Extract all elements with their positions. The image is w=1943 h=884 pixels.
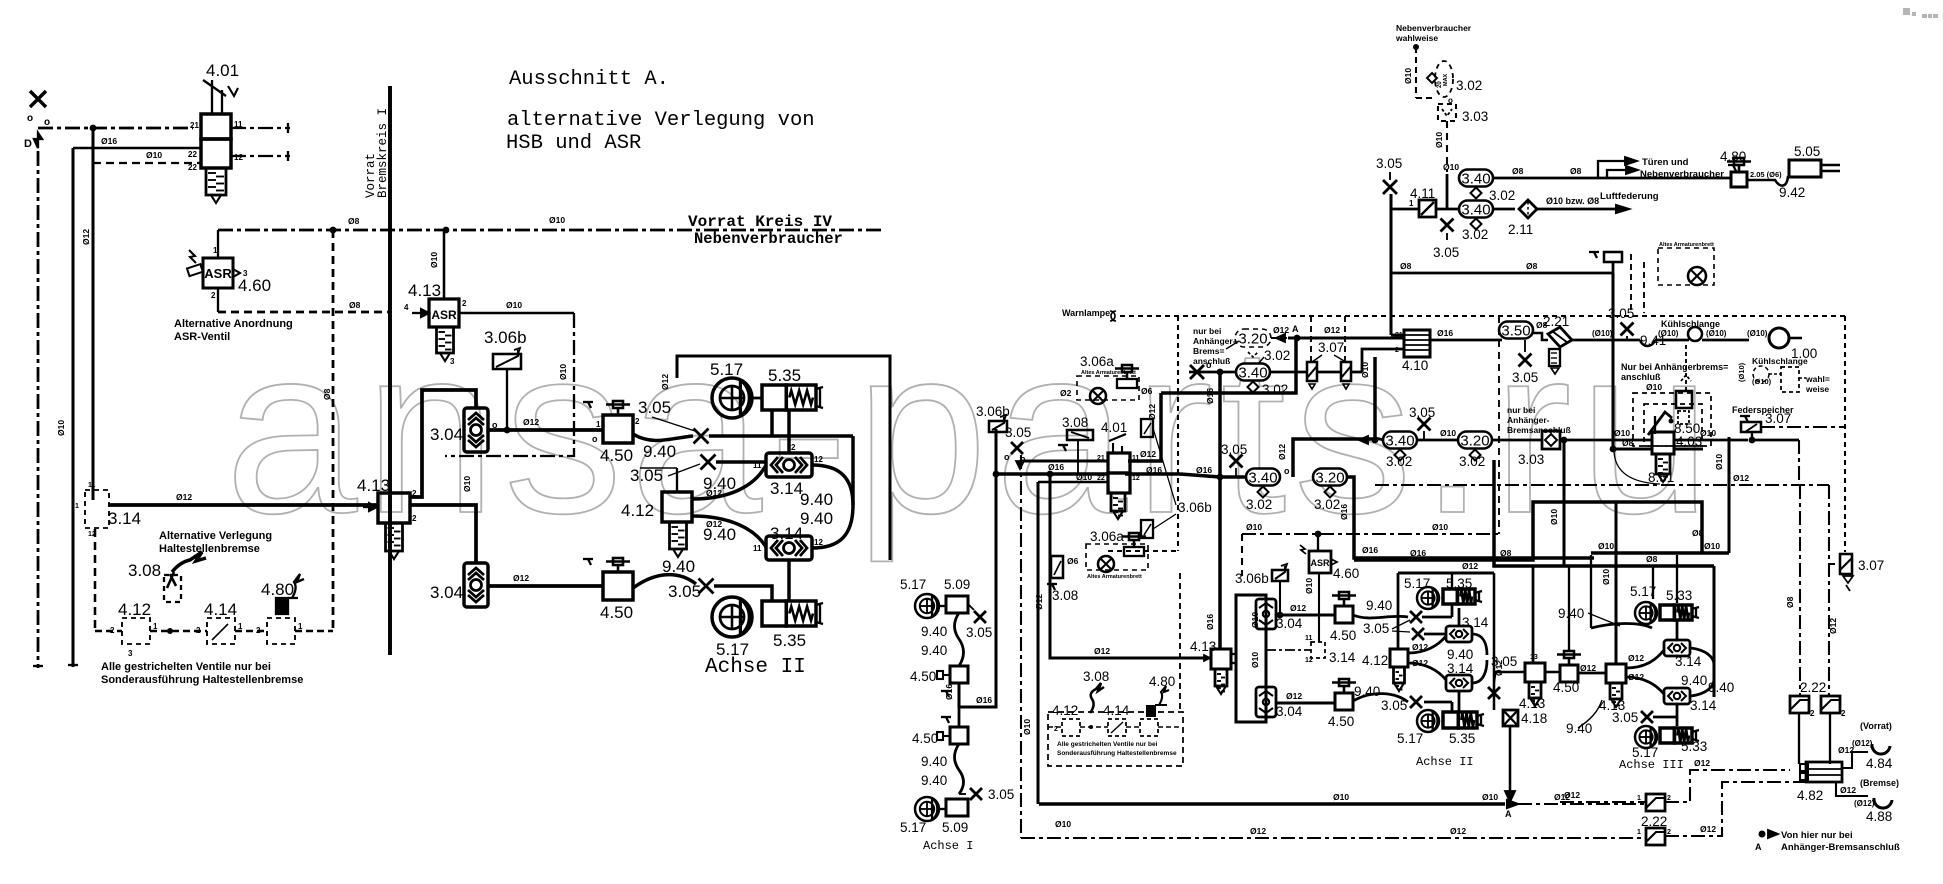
svg-text:(Ø10): (Ø10) [1706, 329, 1727, 338]
valve 3.14 achse2 upper [1446, 626, 1472, 642]
svg-text:3.02: 3.02 [1462, 227, 1488, 242]
wire 3.14 lower to 5.35 lower [787, 560, 790, 601]
svg-text:4.12: 4.12 [1052, 703, 1078, 718]
svg-text:1: 1 [298, 622, 303, 631]
wire X lower to 5.35 lower [714, 586, 772, 601]
svg-text:3.40: 3.40 [1248, 469, 1277, 486]
svg-text:3.40: 3.40 [1461, 201, 1490, 218]
svg-text:Altes Armaturenbrett: Altes Armaturenbrett [1659, 242, 1714, 248]
X achse3 [1641, 711, 1653, 723]
svg-text:4.50: 4.50 [912, 731, 938, 746]
svg-text:3.05: 3.05 [966, 625, 992, 640]
wire rowC corner down [1346, 477, 1594, 558]
svg-text:Ø12: Ø12 [1412, 642, 1428, 652]
shutoff 4.18 [1503, 710, 1518, 726]
wire 3.40 to 3.20 row B [1417, 439, 1459, 442]
wire axle1 mid [958, 683, 961, 727]
svg-text:3.03: 3.03 [1462, 109, 1488, 124]
svg-text:(Ø12): (Ø12) [1854, 799, 1875, 808]
svg-text:2: 2 [462, 299, 467, 308]
svg-text:(Vorrat): (Vorrat) [1860, 721, 1892, 731]
wire from 4.01 port 12 [231, 155, 290, 157]
svg-text:12: 12 [1305, 657, 1313, 664]
svg-text:Ø12: Ø12 [1094, 646, 1110, 656]
svg-text:(Ø10): (Ø10) [1752, 377, 1772, 386]
svg-text:3.14: 3.14 [770, 524, 803, 543]
wire vertical solid left [71, 148, 74, 667]
svg-text:4.50: 4.50 [600, 446, 633, 465]
svg-text:ASR: ASR [1310, 558, 1330, 568]
svg-text:4.50: 4.50 [1553, 680, 1579, 695]
feed line y566 [1494, 460, 1714, 566]
svg-text:3.20: 3.20 [1315, 469, 1344, 486]
wire from 4.01 port 11 [231, 127, 290, 129]
svg-text:2: 2 [211, 291, 216, 300]
svg-text:Luftfederung: Luftfederung [1600, 191, 1659, 202]
svg-text:3.40: 3.40 [1238, 364, 1267, 381]
wire 3.04 to 4.50 O12 [488, 428, 603, 432]
dashed box right edge [1844, 316, 1846, 552]
wire X to 3.40 [1189, 371, 1237, 374]
valve 3.14 achse3 lower [1664, 688, 1690, 704]
test coupling X below [1441, 219, 1454, 232]
svg-text:3.20: 3.20 [1460, 432, 1489, 449]
wire Luftfederung [1493, 208, 1515, 211]
air tank 1.00 [1769, 328, 1789, 348]
valve 3.03 dashed [1438, 104, 1456, 121]
overflow valve 3.20 row B [1458, 432, 1492, 449]
border top of Achse II cluster [677, 356, 890, 560]
svg-text:3.05: 3.05 [1512, 370, 1538, 385]
test coupling X above 3.40 rowC [1230, 455, 1243, 468]
svg-text:3.02: 3.02 [1262, 382, 1288, 397]
svg-text:alternative Verlegung von: alternative Verlegung von [507, 109, 815, 132]
spring exhaust of 4.12 [670, 522, 687, 549]
feed drop to 4.13 mid [1532, 565, 1535, 663]
svg-text:22: 22 [1097, 475, 1105, 482]
svg-text:21: 21 [1097, 455, 1105, 462]
feed drop to 5.17 achse3 [1652, 567, 1654, 599]
wire dash-dot from D to valve 4.01 [38, 127, 193, 130]
two-way valve 3.04 achse2 lower [1256, 687, 1276, 717]
svg-text:2.21: 2.21 [1543, 314, 1569, 329]
svg-text:9.40: 9.40 [1366, 598, 1392, 613]
svg-text:(Ø10): (Ø10) [1747, 329, 1768, 338]
svg-text:5.05: 5.05 [1794, 144, 1820, 159]
valve 4.50 lower ALB [603, 572, 633, 600]
dashed lamp box Altes Armaturenbrett top right [1658, 248, 1714, 285]
svg-text:Bremskreis I: Bremskreis I [376, 108, 390, 198]
svg-text:4.82: 4.82 [1797, 788, 1823, 803]
svg-text:weise: weise [1805, 384, 1829, 394]
svg-text:9.42: 9.42 [1779, 185, 1805, 200]
wire 4.10 right to coil row [1430, 339, 1502, 342]
manifold block achse2 [1236, 595, 1266, 722]
svg-text:Ø10: Ø10 [56, 420, 66, 436]
svg-text:9.40: 9.40 [1354, 684, 1380, 699]
test coupling X at bus start [1011, 442, 1023, 454]
valve 4.50 mid [1560, 665, 1578, 682]
svg-text:Alle gestrichelten Ventile nur: Alle gestrichelten Ventile nur bei [1057, 741, 1158, 748]
wire row Aprime left leg down to 4.01 [1128, 393, 1161, 461]
svg-text:Ø8: Ø8 [1512, 166, 1524, 176]
svg-text:o: o [1206, 360, 1212, 370]
svg-text:2: 2 [791, 443, 796, 452]
svg-text:Anhänger-Bremsanschluß: Anhänger-Bremsanschluß [1781, 842, 1900, 853]
supply line Vorrat Bremskreis I [388, 86, 392, 655]
test coupling X row B [1418, 418, 1431, 431]
legend A node [1759, 831, 1766, 838]
svg-text:o: o [1284, 466, 1290, 476]
svg-text:Ø6: Ø6 [1141, 386, 1153, 396]
svg-text:9.40: 9.40 [921, 643, 947, 658]
svg-text:Ø10: Ø10 [1704, 541, 1720, 551]
wire 3.04 lower to 4.50 lower [1276, 701, 1335, 704]
svg-text:HSB und ASR: HSB und ASR [506, 132, 641, 155]
feed line y553 [1591, 551, 1729, 554]
svg-text:4.80: 4.80 [261, 580, 294, 599]
dashed box left edge [1177, 316, 1179, 551]
svg-text:Ø10: Ø10 [1432, 522, 1448, 532]
svg-text:Ø12: Ø12 [1277, 444, 1287, 460]
wire 3.50 to 2.21 [1533, 333, 1548, 340]
svg-text:2: 2 [1667, 829, 1671, 836]
wire 3.20 to 3.03 [1491, 439, 1542, 442]
coupling 2.22 left a [1646, 794, 1665, 811]
svg-text:1: 1 [75, 503, 79, 510]
svg-text:5.35: 5.35 [773, 631, 806, 650]
dash-dot row B extension [1375, 484, 1829, 486]
svg-text:Ø10: Ø10 [1250, 652, 1260, 668]
svg-text:Ø10: Ø10 [1482, 792, 1498, 802]
svg-text:Ø8: Ø8 [1785, 596, 1795, 608]
svg-text:o: o [492, 420, 498, 430]
Z wire bus to dryer [1293, 357, 1375, 477]
svg-text:Ø8: Ø8 [1500, 548, 1512, 558]
wire 3.04 upper to 4.50 [1276, 613, 1335, 616]
bus lower to 4.01 port22 [996, 472, 1108, 475]
svg-text:2: 2 [412, 489, 417, 498]
wire 4.13 top to O8 line [443, 230, 446, 299]
wire dashed riser with dot [1413, 44, 1419, 50]
svg-text:3.14: 3.14 [770, 479, 803, 498]
svg-text:Ø8: Ø8 [1646, 554, 1658, 564]
drain of 2.21 with exhaust [1549, 349, 1560, 366]
svg-text:5.35: 5.35 [1449, 731, 1475, 746]
wire ASR down [1318, 573, 1320, 642]
wire node A to 4.10 [1288, 336, 1404, 339]
svg-text:A: A [1505, 809, 1512, 819]
spring exhaust of 4.01 [206, 168, 226, 195]
svg-text:Ø10: Ø10 [1333, 792, 1349, 802]
svg-text:Ø10: Ø10 [429, 252, 439, 268]
overflow valve 3.20 row C [1313, 469, 1347, 486]
feed riser x1564 from row B [1562, 440, 1565, 565]
svg-text:Ø12: Ø12 [1290, 603, 1306, 613]
svg-text:3.04: 3.04 [1276, 704, 1303, 719]
brake chamber 5.17 axle1 bottom [915, 797, 939, 821]
wire 5.35 to 3.14 achse2 [1458, 608, 1461, 626]
svg-text:Ø10: Ø10 [1055, 819, 1071, 829]
dash-dot riser x1021 [1020, 455, 1022, 838]
svg-text:2: 2 [1810, 709, 1815, 718]
svg-text:4.13: 4.13 [408, 281, 441, 300]
bus upper to 4.01 port21 [1020, 459, 1108, 462]
feed elbow from bus C [1354, 502, 1702, 560]
svg-text:Ø12: Ø12 [1564, 790, 1580, 800]
valve ASR 4.60 [203, 258, 233, 288]
svg-text:Ø10: Ø10 [1360, 362, 1370, 378]
svg-text:3.05: 3.05 [1409, 405, 1435, 420]
svg-text:nur bei: nur bei [1507, 405, 1535, 415]
svg-text:Ø8: Ø8 [1400, 261, 1412, 271]
wire right vertical to bracket [851, 436, 854, 505]
svg-text:Kühlschlange: Kühlschlange [1752, 356, 1808, 366]
svg-text:ASR-Ventil: ASR-Ventil [174, 331, 230, 343]
wire 4.01 port11 to row Aprime [1130, 459, 1161, 462]
svg-text:Ø8: Ø8 [322, 388, 332, 400]
feed drop to 4.50 mid pilot [1568, 567, 1570, 650]
svg-text:MAX: MAX [1443, 73, 1449, 86]
wire 4.50mid to achse3 [1578, 672, 1606, 675]
svg-text:2: 2 [635, 417, 640, 426]
bus row C right of 4.01 [1125, 472, 1180, 475]
svg-text:3.04: 3.04 [1276, 616, 1303, 631]
coupling head 2.22 right a [1790, 696, 1809, 713]
svg-text:(Bremse): (Bremse) [1860, 778, 1899, 788]
valve 4.80 dashed right [1140, 719, 1158, 736]
spring exhaust of 4.13 [437, 327, 454, 353]
svg-text:5.17: 5.17 [710, 360, 743, 379]
valve 4.50 achse2 upper [1335, 606, 1353, 623]
svg-text:4: 4 [404, 303, 409, 312]
svg-text:Ø16: Ø16 [1362, 545, 1378, 555]
wire dash-dot manifold to 3.14 [1266, 649, 1311, 651]
wires 4.12 to 3.14s [692, 465, 766, 499]
svg-text:A: A [1292, 324, 1299, 334]
svg-text:9.40: 9.40 [1447, 647, 1473, 662]
svg-text:3.07: 3.07 [1858, 558, 1884, 573]
wire dashed down from 3.03 [1446, 121, 1448, 172]
pilot valve on riser [1589, 251, 1599, 253]
svg-text:9.40: 9.40 [800, 490, 833, 509]
svg-text:Ø8: Ø8 [1570, 166, 1582, 176]
svg-text:3.50: 3.50 [1501, 322, 1530, 339]
svg-text:Bremsanschluß: Bremsanschluß [1507, 425, 1571, 435]
svg-text:3.02: 3.02 [1246, 497, 1272, 512]
thin arc under 8.51 [1614, 452, 1660, 484]
svg-text:Ø10: Ø10 [1246, 522, 1262, 532]
svg-text:3.08: 3.08 [1062, 415, 1088, 430]
svg-text:20: 20 [1437, 81, 1443, 88]
svg-text:Ø12: Ø12 [1450, 826, 1466, 836]
exhaust funnels under 3.07 [1309, 384, 1315, 389]
wire 3.04 top loop to 4.13 [410, 390, 476, 497]
svg-text:Ø16: Ø16 [1205, 614, 1215, 630]
svg-text:Achse I: Achse I [923, 839, 973, 853]
valve 4.50 achse2 lower [1335, 693, 1353, 710]
wire 3.04 lower top to 4.13 [410, 505, 476, 563]
right bracket achse3 [1712, 566, 1715, 697]
svg-text:3.14: 3.14 [1690, 698, 1717, 713]
wire dashed lower O8 line [218, 311, 391, 314]
svg-text:Ø12: Ø12 [1580, 663, 1596, 673]
svg-text:Ø16: Ø16 [1146, 465, 1162, 475]
dashed box top edge [1120, 315, 1845, 317]
svg-text:Ø8: Ø8 [1622, 438, 1634, 448]
test coupling X row A [1190, 365, 1204, 379]
wire dashed vertical x1499 [1498, 316, 1500, 534]
svg-text:Ø10: Ø10 [1304, 578, 1314, 594]
svg-text:Ø10: Ø10 [1022, 719, 1032, 735]
feed riser x1729 from row B [1727, 437, 1730, 553]
chamber 5.09 bottom [946, 799, 968, 816]
svg-text:3: 3 [243, 269, 248, 278]
link 5.17-5.35 [753, 397, 762, 400]
svg-text:9.40: 9.40 [703, 525, 736, 544]
svg-text:Ø12: Ø12 [1733, 473, 1749, 483]
svg-text:3.04: 3.04 [430, 583, 463, 602]
svg-text:o: o [1004, 452, 1010, 462]
wire row B dash-dot right [1761, 426, 1845, 428]
svg-text:Ø10: Ø10 [506, 300, 522, 310]
svg-text:12: 12 [814, 455, 823, 464]
svg-text:4.12: 4.12 [1362, 653, 1388, 668]
svg-text:3: 3 [128, 649, 133, 658]
svg-text:9.40: 9.40 [921, 773, 947, 788]
bracket achse2 [1472, 634, 1487, 655]
svg-text:5.35: 5.35 [768, 366, 801, 385]
svg-text:anschluß: anschluß [1193, 356, 1230, 366]
svg-text:o: o [27, 113, 33, 124]
svg-text:4.03: 4.03 [1676, 434, 1702, 449]
svg-text:Nebenverbraucher: Nebenverbraucher [694, 230, 843, 248]
svg-text:9.40: 9.40 [1566, 721, 1592, 736]
svg-text:4.50: 4.50 [1328, 714, 1354, 729]
svg-text:3.40: 3.40 [1461, 170, 1490, 187]
wire to 4.11 [1391, 208, 1419, 211]
svg-text:Ø8: Ø8 [1692, 528, 1704, 538]
valve 3.14 achse2 lower [1446, 675, 1472, 691]
svg-text:2: 2 [1841, 709, 1846, 718]
svg-text:4.60: 4.60 [238, 276, 271, 295]
wire 3.03 to 4.03 [1560, 439, 1652, 442]
svg-text:Haltestellenbremse: Haltestellenbremse [159, 543, 260, 555]
junction dots on O8 line [330, 227, 337, 234]
svg-text:Ø8: Ø8 [348, 216, 360, 226]
svg-text:Ø12: Ø12 [1628, 653, 1644, 663]
bracket achse3 [1691, 648, 1714, 665]
spring brake 5.35 achse2 lower [1443, 712, 1458, 728]
svg-text:Ø12: Ø12 [1840, 785, 1856, 795]
svg-text:Ø10: Ø10 [1598, 541, 1614, 551]
svg-text:2.11: 2.11 [1508, 222, 1533, 237]
svg-text:3.20: 3.20 [1238, 330, 1267, 347]
svg-text:Alternative Anordnung: Alternative Anordnung [174, 318, 293, 330]
trailer connection 4.82 [1806, 762, 1842, 782]
svg-text:3.08: 3.08 [1083, 669, 1109, 684]
svg-text:8.51: 8.51 [1648, 470, 1674, 485]
svg-text:Ø12: Ø12 [1140, 449, 1156, 459]
svg-text:3.03: 3.03 [1518, 452, 1544, 467]
wire X to 5.35 [709, 434, 853, 437]
svg-text:12: 12 [234, 153, 243, 162]
spring brake cylinder 5.35 lower [762, 601, 786, 626]
valve ASR 4.60 right [1309, 551, 1331, 573]
svg-text:1: 1 [596, 420, 601, 429]
svg-text:A: A [1755, 842, 1762, 852]
svg-text:Achse II: Achse II [705, 656, 806, 679]
pressure limiter 3.02 top dashed [1435, 61, 1453, 97]
svg-text:Ø10: Ø10 [1434, 132, 1444, 148]
brake chamber 5.17 achse2 lower [1417, 710, 1439, 732]
svg-text:4.50: 4.50 [600, 603, 633, 622]
svg-text:Ø12: Ø12 [513, 573, 529, 583]
svg-text:2.22: 2.22 [1800, 680, 1826, 695]
wire dash-dot corner down x574 [445, 313, 574, 456]
pressure valve 3.40 row B [1383, 432, 1417, 449]
wire 3.06b down to junction [506, 369, 508, 430]
svg-text:Ø2: Ø2 [1060, 388, 1072, 398]
wires 2.22 left a [1560, 801, 1646, 803]
svg-text:3.05: 3.05 [630, 466, 663, 485]
svg-text:21: 21 [190, 121, 199, 130]
svg-text:3.07: 3.07 [1318, 340, 1344, 355]
svg-text:3.06a: 3.06a [1090, 529, 1124, 544]
junction on D line [90, 125, 97, 132]
dashed connecting row right [1048, 726, 1062, 728]
svg-text:4.60: 4.60 [1333, 566, 1359, 581]
svg-text:anschluß: anschluß [1621, 372, 1661, 382]
wire fed to row B [1751, 432, 1753, 440]
svg-text:Nebenverbraucher: Nebenverbraucher [1640, 169, 1724, 180]
svg-text:(Ø10): (Ø10) [1658, 329, 1679, 338]
svg-text:Ø10: Ø10 [549, 215, 565, 225]
spring exhaust of 4.13 lower [386, 523, 403, 551]
test coupling X upper [694, 429, 709, 444]
svg-text:3.05: 3.05 [1363, 621, 1389, 636]
svg-text:Ø12: Ø12 [1250, 826, 1266, 836]
svg-text:Ø16: Ø16 [1048, 462, 1064, 472]
svg-text:ASR: ASR [431, 308, 457, 322]
svg-text:Ø10: Ø10 [462, 476, 472, 492]
svg-text:2: 2 [412, 514, 417, 523]
wire coil row [1572, 339, 1640, 342]
X achse2 lower [1410, 696, 1422, 708]
svg-text:4.50: 4.50 [1330, 628, 1356, 643]
svg-text:Ø12: Ø12 [1324, 325, 1340, 335]
lever of 8.50 [1648, 412, 1672, 435]
hand brake valve 8.50 cluster dashed [1633, 393, 1711, 446]
svg-text:11: 11 [88, 482, 96, 489]
svg-text:Nur bei Anhängerbrems=: Nur bei Anhängerbrems= [1621, 362, 1728, 372]
svg-text:Vorrat Kreis IV: Vorrat Kreis IV [688, 213, 832, 231]
svg-text:9.40: 9.40 [1681, 673, 1707, 688]
wire ASR port1 up [217, 230, 219, 258]
svg-text:4.88: 4.88 [1866, 809, 1892, 824]
riser from Achse I to bus [959, 429, 996, 707]
svg-text:Ø8: Ø8 [1526, 261, 1538, 271]
wire row B from node [1375, 438, 1384, 440]
svg-text:11: 11 [1305, 635, 1313, 642]
svg-text:1: 1 [238, 622, 243, 631]
wire X to 3.14 [716, 460, 766, 463]
svg-text:2.05 (Ø6): 2.05 (Ø6) [1750, 170, 1782, 179]
svg-text:Ø16: Ø16 [1339, 504, 1349, 520]
svg-text:Alle gestrichelten Ventile nur: Alle gestrichelten Ventile nur bei [101, 661, 271, 673]
wire and X axle1 top [940, 605, 946, 607]
svg-text:wahl=: wahl= [1805, 374, 1830, 384]
